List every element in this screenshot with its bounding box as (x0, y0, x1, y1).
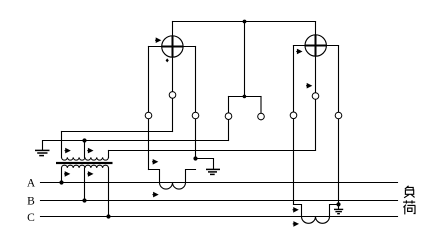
phase line A (41, 182, 398, 184)
junction dot TV-b on ground bus (82, 138, 86, 142)
voltage transformer TV upper windings (62, 157, 109, 160)
junction dot TV primary on line B (82, 198, 86, 202)
wire TV right winding lead c (108, 151, 110, 158)
label load 负 (hand drawn) (404, 186, 415, 198)
wire TA1 ground tap (196, 159, 214, 170)
svg-text:B: B (27, 195, 35, 207)
wire W2 frame bar (294, 45, 339, 47)
polarity mark W2 voltage (296, 50, 301, 54)
junction dot top bus (243, 20, 247, 24)
wire TA2 ground stub (338, 205, 340, 210)
ground G2 (206, 169, 220, 174)
wire phase-a voltage link (62, 131, 173, 133)
wire TA2 secondary left lead step (294, 205, 302, 217)
wire node-b left terminal stub (228, 97, 230, 141)
polarity mark TA1 lower (152, 193, 157, 197)
wire TA1 secondary right lead step (186, 170, 196, 183)
wire TA2 secondary right lead step (330, 205, 339, 217)
polarity mark W2 current (306, 84, 311, 88)
wire TV lower right lead to C (108, 168, 110, 217)
ground G1 (35, 150, 50, 155)
voltage transformer TV lower windings (62, 165, 109, 168)
terminal W1 right (192, 112, 199, 119)
junction dot TA2 ground tap (336, 202, 340, 206)
junction dot TV primary on line A (59, 180, 63, 184)
terminal node-b left (225, 113, 232, 120)
wire TV lower left lead to A (61, 168, 63, 183)
terminal W1 left (145, 112, 152, 119)
wire node-b riser (244, 22, 246, 97)
ground G3 (334, 209, 343, 213)
wire TA1 secondary left lead step (149, 170, 160, 183)
wire TV left winding lead a (61, 132, 63, 158)
polarity mark W1 current (166, 58, 169, 62)
wire W1 right current lead (195, 47, 197, 159)
polarity mark TA2 lower (293, 222, 298, 226)
terminal W1 centre (169, 92, 176, 99)
wire W2 centre voltage lead (315, 22, 317, 151)
polarity mark TV lower right (87, 172, 92, 176)
current transformer TA1 winding (160, 183, 186, 190)
terminal W2 centre (312, 93, 319, 100)
wire W1 left current lead (148, 47, 150, 170)
polarity mark W1 voltage (155, 38, 160, 42)
wire W1 centre voltage lead (172, 22, 174, 132)
energy meter element W2 (305, 35, 326, 56)
svg-text:C: C (27, 212, 35, 224)
wire W2 left current lead (293, 46, 295, 205)
wire node-b terminal bar (229, 96, 262, 98)
current transformer TA2 winding (302, 217, 330, 224)
polarity mark TV lower left (64, 172, 69, 176)
wire TV lower centre lead to B (84, 168, 86, 201)
polarity mark TV upper left (65, 149, 70, 153)
wire top bus (173, 21, 316, 23)
wire neutral/ground bus (43, 141, 229, 151)
voltage transformer TV core (56, 162, 113, 164)
wire TV centre winding lead b (84, 141, 86, 158)
wire W2 right current lead (338, 46, 340, 205)
wire node-b right terminal stub (260, 97, 262, 120)
svg-text:A: A (27, 177, 36, 189)
wire phase-c voltage link (109, 150, 316, 152)
energy meter element W1 (162, 36, 183, 57)
polarity mark TA2 upper (293, 208, 298, 212)
terminal W2 right (335, 112, 342, 119)
junction dot node-b bar (243, 95, 247, 99)
polarity mark TA1 upper (152, 160, 157, 164)
phase line B (41, 200, 398, 202)
polarity mark TV upper right (87, 149, 92, 153)
terminal node-b right (258, 113, 265, 120)
phase line C (41, 216, 398, 218)
junction dot TA1 ground tap (193, 156, 197, 160)
wire W1 frame bar (149, 46, 196, 48)
junction dot TV primary on line C (106, 214, 110, 218)
label load 荷 (hand drawn) (403, 200, 415, 214)
terminal W2 left (290, 112, 297, 119)
